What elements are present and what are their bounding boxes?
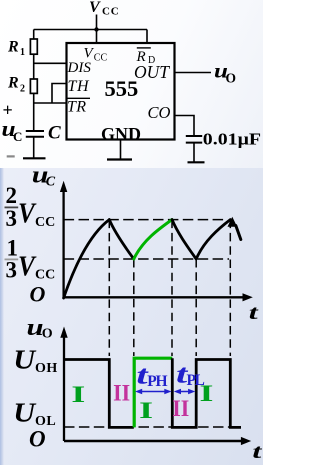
svg-text:CO: CO <box>148 103 171 122</box>
svg-text:1: 1 <box>20 47 25 58</box>
chart uC: x-axis <box>64 293 253 301</box>
wire TH pin L-shape <box>52 84 67 104</box>
dashed vertical x2 <box>133 259 135 356</box>
svg-text:PH: PH <box>147 373 167 390</box>
net VCC label <box>89 0 120 18</box>
chart uO: label UOH <box>13 345 58 376</box>
dashed vertical x5 <box>229 220 231 356</box>
ground bar under GND <box>107 158 132 160</box>
svg-text:II: II <box>172 395 189 421</box>
label uO output <box>214 60 236 86</box>
chart uO: label UOL <box>13 398 56 429</box>
chart uO: label tPL <box>176 360 204 389</box>
svg-text:2: 2 <box>6 183 18 208</box>
resistor R1 <box>30 39 37 54</box>
op-amp U1 555 box <box>67 43 175 140</box>
svg-text:V: V <box>89 0 101 16</box>
svg-text:I: I <box>139 398 153 423</box>
wire OUT pin <box>175 72 212 74</box>
chart uC: dashed level 1/3 <box>64 258 229 260</box>
svg-text:TH: TH <box>68 78 90 95</box>
resistor R2 <box>30 79 37 93</box>
svg-text:O: O <box>226 71 237 86</box>
svg-text:OH: OH <box>35 361 58 376</box>
svg-text:TR: TR <box>67 98 86 115</box>
svg-text:CC: CC <box>35 215 55 230</box>
chart uO: dashed UOL level <box>64 426 237 428</box>
label R2 <box>7 75 25 95</box>
chart uO: label uO <box>27 313 53 341</box>
svg-text:R: R <box>7 39 19 56</box>
chart uC: arrowhead end <box>228 217 238 227</box>
chart uO: waveform green pulse <box>134 358 172 427</box>
svg-text:I: I <box>71 382 85 407</box>
svg-text:3: 3 <box>6 258 18 283</box>
wire capacitor C2 to ground <box>193 143 195 163</box>
svg-text:555: 555 <box>105 76 139 101</box>
chart uC: discharge curve 1 <box>109 220 134 259</box>
chart uC: discharge curve 2 <box>172 220 196 259</box>
wire VCC rail <box>34 29 147 31</box>
svg-text:C: C <box>46 174 56 189</box>
chart uO: y-axis <box>60 327 67 442</box>
svg-text:C: C <box>13 129 22 144</box>
wire DIS pin <box>34 62 67 64</box>
dashed vertical x1 <box>108 220 110 356</box>
chart uC: label 1/3 VCC <box>5 236 56 283</box>
svg-text:O: O <box>30 281 46 306</box>
wire TR pin <box>34 102 67 104</box>
wire RD pin stub <box>146 30 148 44</box>
label minus polarity <box>7 155 15 157</box>
svg-text:U: U <box>13 398 36 428</box>
svg-text:0.01μF: 0.01μF <box>203 131 261 149</box>
wire capacitor to ground <box>33 137 35 159</box>
wire left branch vertical <box>33 30 35 132</box>
chart uO: x-axis <box>64 437 251 445</box>
chart uC: green charge curve <box>134 220 172 259</box>
chart uC: y-axis <box>60 181 67 298</box>
chart uC: decay stub after arrow <box>236 226 241 240</box>
pin label TR with overline <box>67 98 90 115</box>
svg-text:3: 3 <box>6 206 18 231</box>
wire CO pin to capacitor <box>175 116 195 136</box>
svg-text:C: C <box>48 123 61 144</box>
chart uO: waveform black part 2 <box>172 358 241 427</box>
svg-text:t: t <box>249 301 260 323</box>
wire VCC label drop <box>96 15 98 44</box>
chart uO: label tPH <box>136 361 167 390</box>
dashed vertical x4 <box>195 259 197 356</box>
svg-text:OUT: OUT <box>134 62 170 82</box>
svg-text:II: II <box>113 380 130 406</box>
svg-text:CC: CC <box>102 6 120 18</box>
capacitor C <box>26 131 44 137</box>
svg-text:R: R <box>7 75 19 92</box>
node junction dot VCC <box>94 27 98 31</box>
svg-text:O: O <box>42 327 53 342</box>
label uC <box>2 118 23 144</box>
wire GND pin <box>120 140 122 160</box>
chart uO: tPH arrow <box>135 389 172 395</box>
chart uC: label uC <box>32 161 56 189</box>
pin label VCC inside <box>84 46 108 64</box>
svg-text:CC: CC <box>94 53 108 64</box>
label R1 <box>7 39 25 59</box>
ground bar under C2 <box>188 161 205 163</box>
svg-text:DIS: DIS <box>67 60 92 76</box>
pin label RD with overline <box>136 48 156 66</box>
svg-text:t: t <box>252 440 263 462</box>
capacitor C2 0.01uF <box>186 136 202 143</box>
ground bar under C <box>23 157 46 159</box>
svg-text:2: 2 <box>20 83 25 94</box>
chart uC: charge curve 3 <box>196 220 230 259</box>
chart uC: dashed level 2/3 <box>64 219 227 221</box>
dashed vertical x3 <box>171 220 173 356</box>
svg-text:PL: PL <box>187 372 205 389</box>
chart uC: charge curve 1 <box>64 220 110 298</box>
chart uO: waveform black part 1 <box>64 360 134 428</box>
svg-text:O: O <box>29 427 46 452</box>
svg-text:U: U <box>13 345 36 375</box>
chart uO: tPL arrow <box>174 389 196 395</box>
chart uC: label 2/3 VCC <box>5 183 56 231</box>
